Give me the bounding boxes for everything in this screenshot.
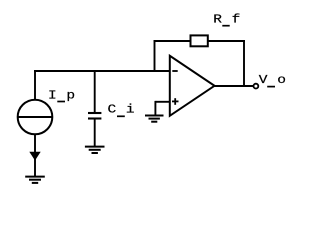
resistor R_f [191, 35, 208, 46]
op-amp U1: triangle body [170, 56, 215, 116]
svg-text:R f: R f [213, 13, 241, 26]
node V_o: output terminal pin circle [254, 84, 259, 89]
label V_o [259, 73, 287, 86]
wire: main input net from current source to op-amp inverting input [34, 70, 170, 72]
capacitor C_i [88, 113, 101, 119]
wire: capacitor top stem [94, 71, 96, 113]
wire: current source bottom stem with arrow [29, 134, 40, 176]
wire: capacitor bottom stem [94, 119, 96, 147]
current source I_p: circle body [18, 100, 53, 135]
op-amp plus sign [172, 98, 179, 105]
label R_f [213, 13, 241, 26]
wire: current source top stem [34, 70, 36, 100]
wire: op-amp output to terminal [215, 85, 254, 87]
label I_p [48, 89, 76, 102]
wire: non-inverting input to ground [155, 101, 169, 116]
wire: feedback vertical riser [154, 40, 156, 72]
svg-text:V o: V o [259, 73, 287, 86]
wire: feedback right vertical down to output [243, 40, 245, 87]
ground: below current source [25, 177, 45, 183]
svg-text:C i: C i [108, 103, 136, 116]
op-amp minus sign [172, 70, 177, 72]
label C_i [108, 103, 136, 117]
wire: feedback top horizontal to resistor [154, 40, 191, 42]
svg-text:I p: I p [48, 89, 76, 102]
ground: below capacitor [85, 147, 105, 153]
wire: resistor right lead [208, 40, 245, 42]
ground: at op-amp non-inverting input [145, 116, 164, 122]
